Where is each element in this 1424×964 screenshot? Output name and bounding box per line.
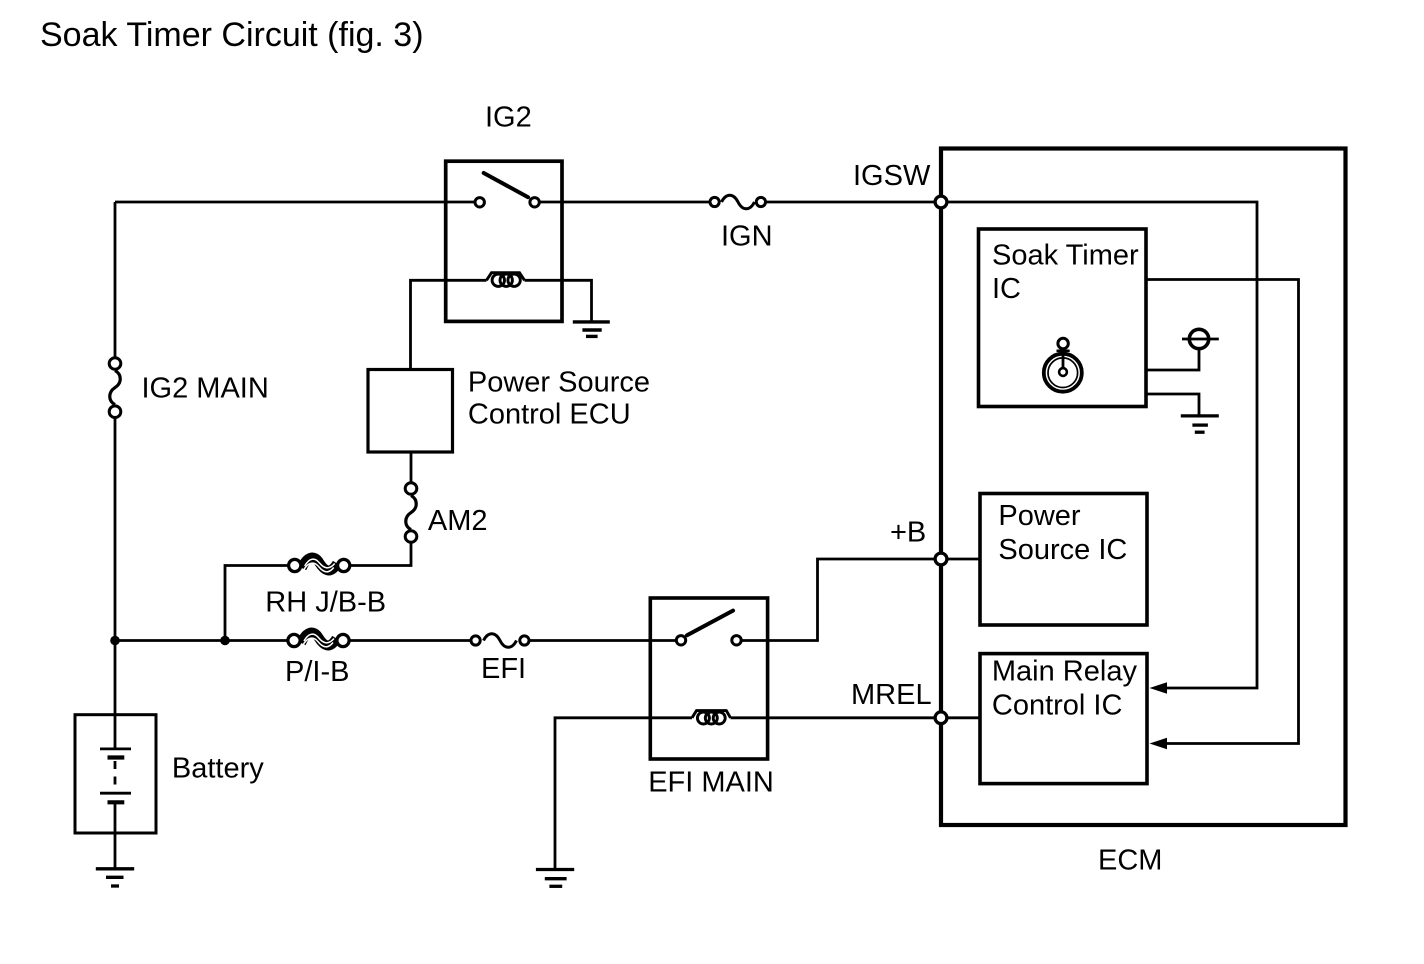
fuse IGN [710,195,766,209]
svg-text:Source IC: Source IC [998,534,1127,566]
ground of Soak Timer IC pin [1181,416,1219,432]
node IGSW terminal circle [935,196,947,208]
wire top horizontal from left vertical to IG2 relay [115,201,446,204]
switch arm IG2 [484,173,528,197]
svg-text:EFI MAIN: EFI MAIN [648,766,774,798]
arrowhead into Main Relay Control IC (lower) [1150,738,1168,750]
wire EFI MAIN switch output up to +B [768,559,941,641]
wire IGSW to internal vertical, down to Main Relay Control IC arrow [941,202,1257,688]
svg-text:IGN: IGN [721,221,773,253]
svg-text:ECM: ECM [1098,844,1162,876]
junction dot at RH J/B-B column [220,636,230,646]
contact circle EFI MAIN switch left [676,636,685,645]
wire from ECU down to AM2 fuse [410,452,413,485]
wire RH J/B-B line left part, down to junction [225,566,289,641]
relay IG2 box [446,161,562,321]
svg-text:IGSW: IGSW [853,160,931,192]
wire Soak Timer IC output to right internal vertical, down to lower arrow [1146,280,1299,744]
box Power Source IC [980,494,1147,626]
stopwatch icon in Soak Timer IC [1044,338,1082,391]
relay EFI MAIN box [650,598,767,759]
coil IG2 loops [487,273,525,287]
sensor circle symbol [1189,329,1208,348]
ECM box [941,149,1346,826]
wire EFI MAIN switch right stub [742,639,768,642]
coil EFI MAIN wire right (to MREL) [731,716,942,719]
svg-text:AM2: AM2 [428,505,488,537]
wire battery negative to ground [114,802,117,869]
wire MREL node to Main Relay Control IC [941,716,980,719]
wire bottom horizontal P/I-B to EFI fuse [349,639,471,642]
junction dot at battery column [110,636,120,646]
coil IG2 wire right (to ground) [525,280,592,321]
box Main Relay Control IC [980,654,1147,784]
wire +B node to Power Source IC [941,558,980,561]
wire bottom horizontal battery to P/I-B [115,639,289,642]
svg-text:IG2: IG2 [485,102,532,134]
svg-text:Main Relay: Main Relay [992,656,1138,688]
coil EFI MAIN wire left (to ground) [555,718,692,870]
wire top horizontal from IGN fuse to IGSW node at ECM [765,201,941,204]
svg-text:Battery: Battery [172,753,264,785]
svg-text:EFI: EFI [481,653,526,685]
node +B terminal circle [935,553,947,565]
svg-text:IG2 MAIN: IG2 MAIN [142,373,269,405]
contact circle IG2 switch right [530,198,539,207]
coil IG2 wire left (to Power Source Control ECU drop) [411,280,487,369]
svg-text:Power Source: Power Source [468,367,650,399]
wire IG2 switch left stub [446,201,474,204]
contact circle EFI MAIN switch right [732,636,741,645]
box Power Source Control ECU [368,370,453,453]
wire left vertical from IG2 MAIN fuse down to battery [114,411,117,750]
svg-text:Soak Timer: Soak Timer [992,240,1139,272]
svg-text:Soak Timer Circuit (fig. 3): Soak Timer Circuit (fig. 3) [40,16,424,54]
svg-text:Control IC: Control IC [992,690,1123,722]
switch arm EFI MAIN [687,611,733,636]
svg-text:IC: IC [992,273,1021,305]
wire IG2 switch right stub [540,201,562,204]
fuse AM2 (vertical) [405,483,417,543]
svg-text:RH J/B-B: RH J/B-B [265,587,386,619]
ground of IG2 relay coil [573,322,610,337]
wire left vertical from top wire down to IG2 MAIN fuse [114,202,117,364]
fuse IG2 MAIN (vertical) [109,358,121,418]
wire bottom horizontal EFI fuse to EFI MAIN relay [529,639,651,642]
contact circle IG2 switch left [475,198,484,207]
fusible link RH J/B-B [289,558,350,572]
wire from AM2 down and left along RH J/B-B line [349,542,411,566]
ground of battery [96,869,134,886]
coil EFI MAIN loops [692,711,731,724]
svg-text:MREL: MREL [851,679,932,711]
ground of EFI MAIN coil [536,870,574,887]
wire Soak Timer IC pin to analog input circle [1146,350,1199,370]
battery box [75,715,156,833]
svg-text:Control ECU: Control ECU [468,398,631,430]
node MREL terminal circle [935,712,947,724]
wire top horizontal from IG2 relay to IGN fuse [562,201,710,204]
svg-text:+B: +B [890,517,926,549]
arrowhead into Main Relay Control IC (upper) [1150,682,1168,694]
svg-text:P/I-B: P/I-B [285,656,349,688]
battery cell symbol [100,749,131,802]
box Soak Timer IC [979,229,1147,407]
wire Soak Timer IC pin to ground [1146,394,1199,416]
fusible link P/I-B [288,633,349,647]
svg-text:Power: Power [998,500,1081,532]
line through sensor circle [1182,338,1219,341]
fuse EFI [471,634,529,648]
wire EFI MAIN switch left stub [650,639,676,642]
